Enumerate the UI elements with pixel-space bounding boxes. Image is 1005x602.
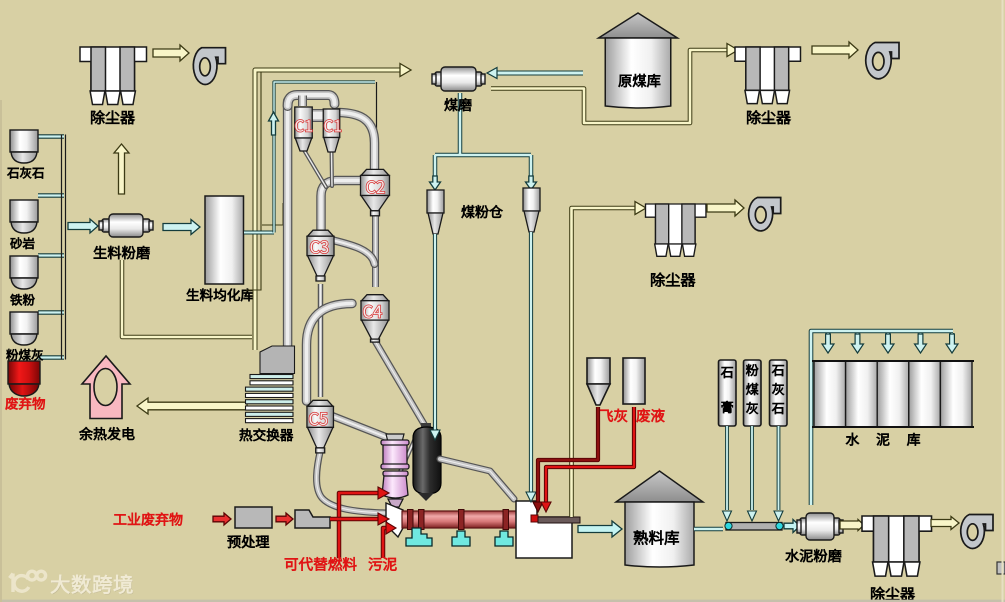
cyclone C5 — [307, 400, 334, 453]
chute C4 to separator — [375, 341, 424, 424]
wire silo bus stub3 — [38, 253, 64, 258]
wire cement mill riser + header — [811, 331, 953, 505]
arrow into coal bin 1 — [430, 176, 441, 190]
arrow preheater gas to coal mill — [400, 64, 411, 77]
arrow into cement silo — [822, 334, 834, 353]
pretreatment box 预处理 — [235, 507, 272, 528]
cement mill 水泥粉磨 — [797, 513, 843, 540]
arrow raw meal feed up — [269, 112, 279, 135]
label 废液 — [637, 409, 665, 422]
label C5 — [309, 413, 327, 426]
watermark text shadow — [52, 576, 134, 595]
arrow additive onto belt — [748, 511, 757, 521]
chute C5 to kiln inlet — [317, 450, 386, 513]
arrow waste to pretreatment — [213, 513, 231, 525]
label 生料均化库 — [187, 289, 254, 302]
right edge light strip — [1002, 0, 1004, 602]
arrow into coal mill — [487, 68, 497, 79]
arrow coal into calciner area — [430, 430, 440, 440]
pipe downcomer to heat exchanger — [283, 101, 293, 351]
cyclone C1b — [323, 109, 340, 152]
label 除尘器 top-right — [747, 110, 790, 124]
wire fly ash to kiln — [538, 407, 598, 503]
edge fragment box — [997, 562, 1005, 574]
arrow additive onto belt — [723, 511, 732, 521]
arrow dc2 to fan2 — [812, 42, 858, 58]
wire limestone down — [777, 426, 781, 510]
label 飞灰 — [600, 409, 627, 422]
arrow dc3 to fan3 — [707, 200, 744, 216]
arrow cement mill to dc4 — [840, 520, 864, 531]
wire cement silo drop — [918, 333, 922, 342]
wire waste liquid to kiln — [546, 407, 634, 503]
label 废弃物 — [6, 397, 45, 410]
wire coal mill to bins tee — [435, 93, 531, 178]
kiln inlet hood (white funnel) — [386, 503, 403, 537]
label C1b — [324, 120, 341, 132]
label gypsum 石膏 (vertical) — [721, 367, 733, 413]
pipe top arch — [288, 95, 335, 106]
fan 1 — [193, 48, 225, 85]
arrow into cement silo — [882, 334, 894, 353]
label 生料粉磨 — [94, 246, 150, 259]
left edge band — [0, 100, 2, 602]
wire silo bus vertical — [62, 135, 66, 360]
label 热交换器 — [240, 429, 293, 442]
arrow coal mill vent into dc2 — [727, 44, 738, 57]
wire sludge line — [383, 528, 386, 558]
chute C1a — [304, 150, 326, 187]
additive column gypsum 石膏 — [719, 360, 737, 426]
label C4 — [364, 305, 382, 318]
calciner inlet funnel — [386, 434, 404, 450]
wire preheater exhaust riser + top duct to coal mill — [255, 70, 400, 350]
label 铁粉 — [10, 294, 34, 306]
arrow cooler vent into dc3 — [635, 202, 646, 215]
arrow into cement silo — [946, 334, 958, 353]
arrow belt to cement mill — [784, 520, 800, 533]
arrow into coal bin 2 — [526, 176, 537, 190]
additive column fly ash 粉煤灰 — [744, 360, 762, 426]
fan 4 — [961, 515, 993, 549]
wire cement silo drop — [950, 333, 954, 342]
label C2 — [367, 181, 385, 194]
pipe C5 exhaust to calciner — [330, 415, 391, 439]
dust collector 1 除尘器 — [80, 47, 147, 105]
fly ash bin 飞灰 — [587, 358, 610, 405]
wire clinker silo to belt — [694, 527, 723, 532]
label 水泥粉磨 — [786, 549, 842, 562]
chute C1b — [330, 151, 335, 186]
wire silo bus stub4 — [38, 310, 64, 315]
label 污泥 — [369, 557, 397, 570]
arrow alternative fuel into calciner — [378, 487, 389, 499]
pipe C1a inlet stub — [298, 96, 307, 107]
rotary kiln body — [402, 511, 520, 528]
wire cement silo drop — [886, 333, 890, 342]
wire coal bin2 to kiln burner — [529, 232, 533, 492]
fan 3 — [749, 198, 781, 231]
label fly ash 粉煤灰 (vertical) — [746, 364, 758, 414]
wire gypsum down — [725, 426, 729, 510]
separator vessel (dark) — [421, 423, 431, 429]
label 煤粉仓 — [462, 205, 503, 218]
label 余热发电 — [79, 427, 134, 440]
cooler red inlet block — [531, 515, 538, 522]
silo sandstone 砂岩 — [10, 200, 38, 233]
label 原煤库 — [619, 74, 661, 87]
waste liquid tank 废液 — [623, 358, 645, 404]
watermark text 大数跨境 — [51, 575, 133, 594]
kiln support 2 — [452, 531, 470, 546]
wire feeder to kiln hood line — [330, 517, 378, 522]
silo fly-ash 粉煤灰 — [10, 312, 38, 345]
label 石灰石 — [7, 167, 43, 179]
label C3 — [311, 241, 329, 254]
arrow pretreatment to feeder — [276, 513, 293, 525]
label 除尘器 middle — [651, 273, 695, 287]
label 除尘器 top-left — [91, 110, 134, 124]
cyclone C1a — [295, 107, 313, 151]
coal mill 煤磨 — [432, 67, 485, 91]
wire coal storage to coal mill — [496, 71, 583, 76]
arrow coal into kiln burner — [526, 492, 536, 502]
bottom edge band — [0, 600, 1005, 602]
silo iron powder 铁粉 — [10, 256, 38, 289]
arrow bus to raw mill — [68, 219, 98, 233]
feeder hopper — [295, 510, 330, 528]
arrow raw mill to silo — [163, 220, 200, 235]
arrow fly ash down — [533, 502, 543, 512]
dust collector 3 除尘器 — [646, 204, 706, 256]
label 工业废弃物 — [114, 513, 183, 526]
arrow into cement silo — [915, 334, 927, 353]
pipe C1b to C2 riser — [339, 113, 375, 171]
clinker cooler (white box) — [516, 501, 572, 558]
wire cement silo drop — [855, 333, 859, 342]
arrow additive onto belt — [774, 511, 783, 521]
kiln support 3 — [495, 531, 513, 546]
watermark logo — [10, 571, 46, 592]
silo waste 废弃物 (red) — [8, 361, 40, 396]
additive column limestone 石灰石 — [770, 360, 788, 426]
cyclone C2 — [361, 169, 390, 215]
label 可代替燃料 — [285, 557, 357, 571]
kiln support 1 — [406, 528, 432, 546]
calciner lower vessel (pink) — [382, 471, 408, 507]
pipe C5 to C4 riser — [307, 304, 353, 402]
arrow heat exchanger to waste heat power — [137, 398, 247, 414]
clinker discharge bar — [538, 517, 580, 523]
arrow dc4 to fan4 — [931, 517, 959, 530]
wire silo bus stub2 — [38, 193, 64, 198]
wire thin return line to homogenization silo — [246, 72, 283, 290]
wire silo bus stub5 — [38, 355, 64, 360]
pipe C2 to C3 riser — [321, 181, 361, 232]
label 预处理 — [228, 535, 270, 548]
dust collector 2 除尘器 — [735, 47, 800, 104]
chute C3 to C5 — [318, 284, 324, 397]
pipe C1a-C1b bridge — [311, 109, 325, 122]
pipe diag separator — [392, 430, 419, 490]
arrow dc1 to fan1 — [153, 45, 189, 61]
label 水泥库 — [846, 433, 920, 446]
arrow feed into kiln hood — [378, 513, 389, 525]
wire silo bus stub1 — [38, 134, 64, 139]
label 粉煤灰 — [6, 349, 42, 361]
wire alternative fuel line — [339, 493, 378, 558]
clinker silo 熟料库 — [616, 471, 703, 567]
arrow waste liquid down — [541, 502, 551, 512]
wire feed drop to C2 riser — [376, 82, 378, 168]
wire coal bin1 to calciner — [433, 234, 437, 434]
label limestone 石灰石 (vertical) — [772, 365, 784, 414]
arrow into cement silo — [852, 334, 864, 353]
fan 2 — [866, 43, 899, 79]
wire raw mill exhaust down-right — [122, 260, 252, 337]
pipe separator to cooler — [440, 459, 514, 499]
cyclone C4 — [361, 295, 389, 342]
dust collector 4 除尘器 — [862, 516, 932, 576]
cement silos 水泥库 (5 cylinders) — [812, 361, 974, 427]
cyclone C3 — [307, 230, 334, 281]
wire coal mill vent to dc2 — [491, 50, 728, 123]
wire raw meal feed 均化库 to tower top — [244, 231, 274, 235]
chute C2 to C4 — [372, 210, 379, 287]
raw mill 生料粉磨 — [99, 214, 153, 237]
arrow raw mill to dc1 — [114, 144, 129, 194]
arrow cooler to clinker silo — [578, 521, 622, 537]
wire cooler vent riser to dc3 — [572, 208, 638, 517]
heat exchanger 热交换器 — [246, 346, 295, 423]
coal storage 原煤库 — [599, 13, 678, 108]
wire fly ash down — [750, 426, 754, 510]
coal powder bin 1 — [427, 190, 444, 234]
silo limestone 石灰石 — [10, 130, 38, 163]
belt conveyor — [726, 523, 782, 531]
coal powder bin 2 — [523, 188, 540, 232]
homogenization silo 生料均化库 — [205, 196, 244, 284]
label C1a — [295, 120, 312, 132]
arrow sludge into kiln — [386, 522, 396, 534]
pipe C3 duct to C4 — [334, 241, 375, 265]
kiln tyres/rings — [408, 510, 414, 530]
label 煤磨 — [445, 98, 472, 111]
wire raw meal riser — [274, 82, 375, 233]
wire cement silo drop — [826, 333, 830, 342]
label 除尘器 bottom-right — [871, 587, 914, 601]
waste heat power 余热发电 (pink arrow symbol) — [82, 356, 130, 419]
label 熟料库 — [634, 530, 679, 544]
calciner upper vessel (pink) — [381, 440, 409, 469]
label 砂岩 — [10, 238, 34, 250]
